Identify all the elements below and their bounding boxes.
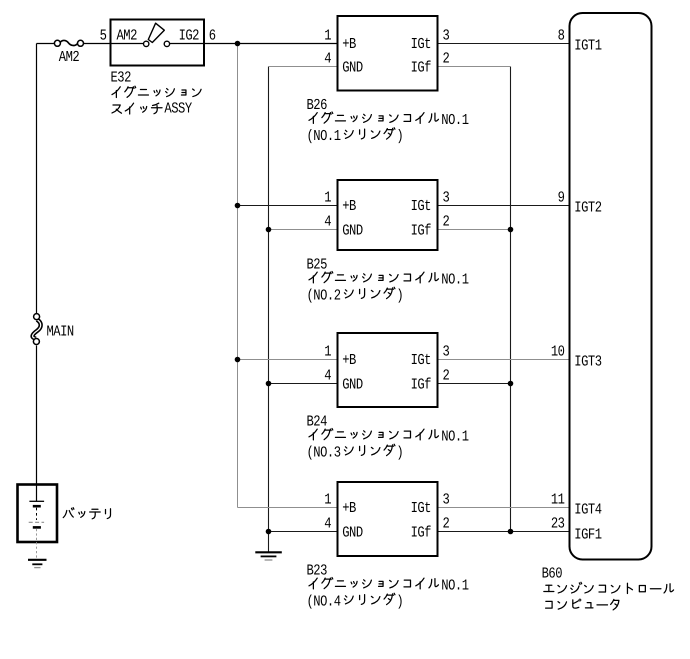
svg-text:3: 3 (442, 342, 449, 360)
pin 6 of E32 (209, 26, 216, 44)
wire battery positive feed (vertical from AM2 fuse node down to battery) (36, 44, 38, 502)
wire GND of B25 pin 4 to ground bus (269, 229, 338, 231)
ignition coil box B23 (338, 482, 438, 556)
label +B inside B26 (342, 35, 356, 53)
pin 4 (GND) of B26 (324, 49, 331, 67)
ignition switch box E32 (111, 20, 205, 66)
battery box (18, 485, 58, 543)
label IGf inside B25 (411, 221, 432, 239)
pin 2 (IGf) of B25 (442, 212, 449, 230)
svg-text:): ) (396, 444, 403, 462)
label IGT2 inside B60 (574, 199, 602, 217)
label IGT4 inside B60 (574, 501, 602, 519)
svg-text:B60: B60 (542, 564, 563, 582)
wire GND of B23 pin 4 to ground bus (269, 531, 338, 533)
wire IGt of B26 pin 3 to ECU (438, 43, 570, 45)
label IGF1 inside B60 (574, 526, 602, 544)
svg-text:1: 1 (324, 26, 331, 44)
pin 3 (IGt) of B23 (442, 490, 449, 508)
label イグニッションコイルNO.1 under B24 (309, 428, 469, 446)
engine control computer box B60 (570, 13, 652, 560)
svg-text:4: 4 (324, 514, 331, 532)
svg-text:IGt: IGt (411, 35, 431, 53)
label +B inside B23 (342, 499, 356, 517)
svg-text:E32: E32 (110, 69, 131, 87)
pin 4 (GND) of B25 (324, 212, 331, 230)
wire IGt of B25 pin 3 to ECU (438, 205, 570, 207)
svg-text:4: 4 (324, 366, 331, 384)
svg-text:+B: +B (342, 351, 356, 369)
svg-text:+B: +B (342, 35, 356, 53)
svg-text:+B: +B (342, 499, 356, 517)
pin 2 (IGf) of B23 (442, 514, 449, 532)
svg-text:(NO.1: (NO.1 (306, 127, 340, 145)
svg-text:IGf: IGf (411, 58, 432, 76)
label AM2 (fuse name) (59, 48, 80, 66)
svg-text:8: 8 (558, 26, 565, 44)
label IGf inside B24 (411, 375, 432, 393)
switch contact symbol (lever and contacts) (144, 23, 170, 46)
svg-text:IGT4: IGT4 (574, 501, 602, 519)
label GND inside B24 (342, 375, 363, 393)
ignition coil box B26 (338, 16, 438, 91)
label B24 reference (306, 413, 327, 431)
pin 11 of B60 (551, 490, 565, 508)
pin 2 (IGf) of B26 (442, 49, 449, 67)
wire +B feed to B24 pin 1 (238, 359, 338, 361)
label IGt inside B26 (411, 35, 431, 53)
label +B inside B25 (342, 197, 356, 215)
svg-text:IGt: IGt (411, 499, 431, 517)
svg-text:): ) (396, 287, 403, 305)
label (NO.1シリンダ) under B26 (306, 127, 403, 145)
battery cell plates (29, 501, 44, 559)
wire +B bus vertical (237, 44, 239, 508)
label B25 reference (306, 256, 327, 274)
label イグニッションコイルNO.1 under B25 (309, 271, 469, 289)
pin 4 (GND) of B24 (324, 366, 331, 384)
pin 1 (+B) of B24 (324, 342, 331, 360)
label スイッチASSY (switch assy) (112, 100, 192, 118)
label エンジンコントロール (engine control) (544, 582, 674, 593)
svg-text:IGT1: IGT1 (574, 37, 602, 55)
svg-text:(NO.2: (NO.2 (306, 287, 340, 305)
svg-text:IGt: IGt (411, 351, 431, 369)
ground (coil GND bus) (255, 552, 281, 560)
label GND inside B25 (342, 221, 363, 239)
svg-text:3: 3 (442, 188, 449, 206)
wire main top feed (battery/fuse to ignition switch to +B bus) (37, 43, 338, 45)
label イグニッションコイルNO.1 under B26 (309, 111, 469, 129)
wire GND bus vertical (268, 67, 270, 553)
label イグニッション (ignition) (112, 86, 201, 97)
svg-text:B26: B26 (306, 96, 327, 114)
label IGt inside B23 (411, 499, 431, 517)
svg-text:9: 9 (558, 188, 565, 206)
svg-text:MAIN: MAIN (46, 322, 73, 340)
pin 9 of B60 (558, 188, 565, 206)
fuse AM2 (54, 40, 83, 46)
label +B inside B24 (342, 351, 356, 369)
pin 3 (IGt) of B25 (442, 188, 449, 206)
svg-text:B24: B24 (306, 413, 327, 431)
label IGf inside B23 (411, 523, 432, 541)
label IGT3 inside B60 (574, 353, 602, 371)
wire IGt of B23 pin 3 to ECU (438, 507, 570, 509)
svg-text:2: 2 (442, 366, 449, 384)
svg-text:IGt: IGt (411, 197, 431, 215)
svg-text:ASSY: ASSY (164, 100, 192, 118)
pin 8 of B60 (558, 26, 565, 44)
fusible link MAIN (33, 314, 41, 345)
svg-text:AM2: AM2 (116, 27, 137, 45)
svg-text:+B: +B (342, 197, 356, 215)
svg-text:IGF1: IGF1 (574, 526, 602, 544)
wire GND of B24 pin 4 to ground bus (269, 383, 338, 385)
label (NO.4シリンダ) under B23 (306, 593, 403, 611)
pin 1 (+B) of B25 (324, 188, 331, 206)
label GND inside B26 (342, 58, 363, 76)
pin 5 of E32 (100, 26, 107, 44)
pin 3 (IGt) of B26 (442, 26, 449, 44)
wire +B feed to B23 pin 1 (238, 507, 338, 509)
svg-text:2: 2 (442, 49, 449, 67)
pin 23 of B60 (551, 514, 565, 532)
pin 4 (GND) of B23 (324, 514, 331, 532)
svg-text:IGf: IGf (411, 523, 432, 541)
label イグニッションコイルNO.1 under B23 (309, 577, 469, 595)
label IGt inside B25 (411, 197, 431, 215)
svg-text:AM2: AM2 (59, 48, 80, 66)
svg-text:23: 23 (551, 514, 565, 532)
svg-text:4: 4 (324, 49, 331, 67)
label B60 reference (542, 564, 563, 582)
svg-text:(NO.4: (NO.4 (306, 593, 340, 611)
label コンピュータ (computer) (546, 599, 619, 610)
label B23 reference (306, 562, 327, 580)
svg-text:GND: GND (342, 58, 363, 76)
label (NO.3シリンダ) under B24 (306, 444, 403, 462)
label E32 reference (110, 69, 131, 87)
svg-text:): ) (396, 127, 403, 145)
pin 2 (IGf) of B24 (442, 366, 449, 384)
svg-text:3: 3 (442, 26, 449, 44)
label IGt inside B24 (411, 351, 431, 369)
svg-text:IGf: IGf (411, 221, 432, 239)
label terminal AM2 inside switch (116, 27, 137, 45)
pin 1 (+B) of B23 (324, 490, 331, 508)
wire IGt of B24 pin 3 to ECU (438, 359, 570, 361)
svg-text:5: 5 (100, 26, 107, 44)
svg-text:GND: GND (342, 523, 363, 541)
svg-text:6: 6 (209, 26, 216, 44)
svg-text:B23: B23 (306, 562, 327, 580)
wire IGf bus vertical (510, 67, 512, 532)
junction dots on +B / GND / IGf buses (235, 41, 514, 535)
svg-text:4: 4 (324, 212, 331, 230)
svg-text:IG2: IG2 (179, 27, 200, 45)
wire IGf of B26 pin 2 to IGf bus (438, 66, 511, 68)
label terminal IG2 inside switch (179, 27, 200, 45)
label バッテリ (battery) (63, 508, 110, 519)
svg-text:2: 2 (442, 514, 449, 532)
svg-text:1: 1 (324, 490, 331, 508)
wire IGf of B24 pin 2 to IGf bus (438, 383, 511, 385)
ground (battery negative) (28, 560, 47, 568)
svg-text:IGT2: IGT2 (574, 199, 602, 217)
wire IGf of B25 pin 2 to IGf bus (438, 229, 511, 231)
svg-text:IGf: IGf (411, 375, 432, 393)
wire GND of B26 pin 4 to ground bus (269, 66, 338, 68)
pin 1 (+B) of B26 (324, 26, 331, 44)
svg-text:GND: GND (342, 221, 363, 239)
svg-text:NO.1: NO.1 (441, 111, 469, 129)
svg-text:1: 1 (324, 188, 331, 206)
svg-text:NO.1: NO.1 (441, 428, 469, 446)
label B26 reference (306, 96, 327, 114)
wire IGf of B23 pin 2 through bus to ECU pin 23 (438, 531, 570, 533)
svg-text:2: 2 (442, 212, 449, 230)
svg-text:GND: GND (342, 375, 363, 393)
pin 10 of B60 (551, 342, 565, 360)
label IGT1 inside B60 (574, 37, 602, 55)
svg-text:NO.1: NO.1 (441, 577, 469, 595)
svg-text:3: 3 (442, 490, 449, 508)
svg-text:IGT3: IGT3 (574, 353, 602, 371)
label (NO.2シリンダ) under B25 (306, 287, 403, 305)
label MAIN (fusible link name) (46, 322, 73, 340)
svg-text:(NO.3: (NO.3 (306, 444, 340, 462)
label IGf inside B26 (411, 58, 432, 76)
label GND inside B23 (342, 523, 363, 541)
svg-text:): ) (396, 593, 403, 611)
ignition coil box B24 (338, 333, 438, 407)
wire +B feed to B25 pin 1 (238, 205, 338, 207)
pin 3 (IGt) of B24 (442, 342, 449, 360)
svg-text:11: 11 (551, 490, 565, 508)
svg-text:B25: B25 (306, 256, 327, 274)
ignition coil box B25 (338, 180, 438, 250)
svg-text:1: 1 (324, 342, 331, 360)
svg-text:10: 10 (551, 342, 565, 360)
svg-text:NO.1: NO.1 (441, 271, 469, 289)
